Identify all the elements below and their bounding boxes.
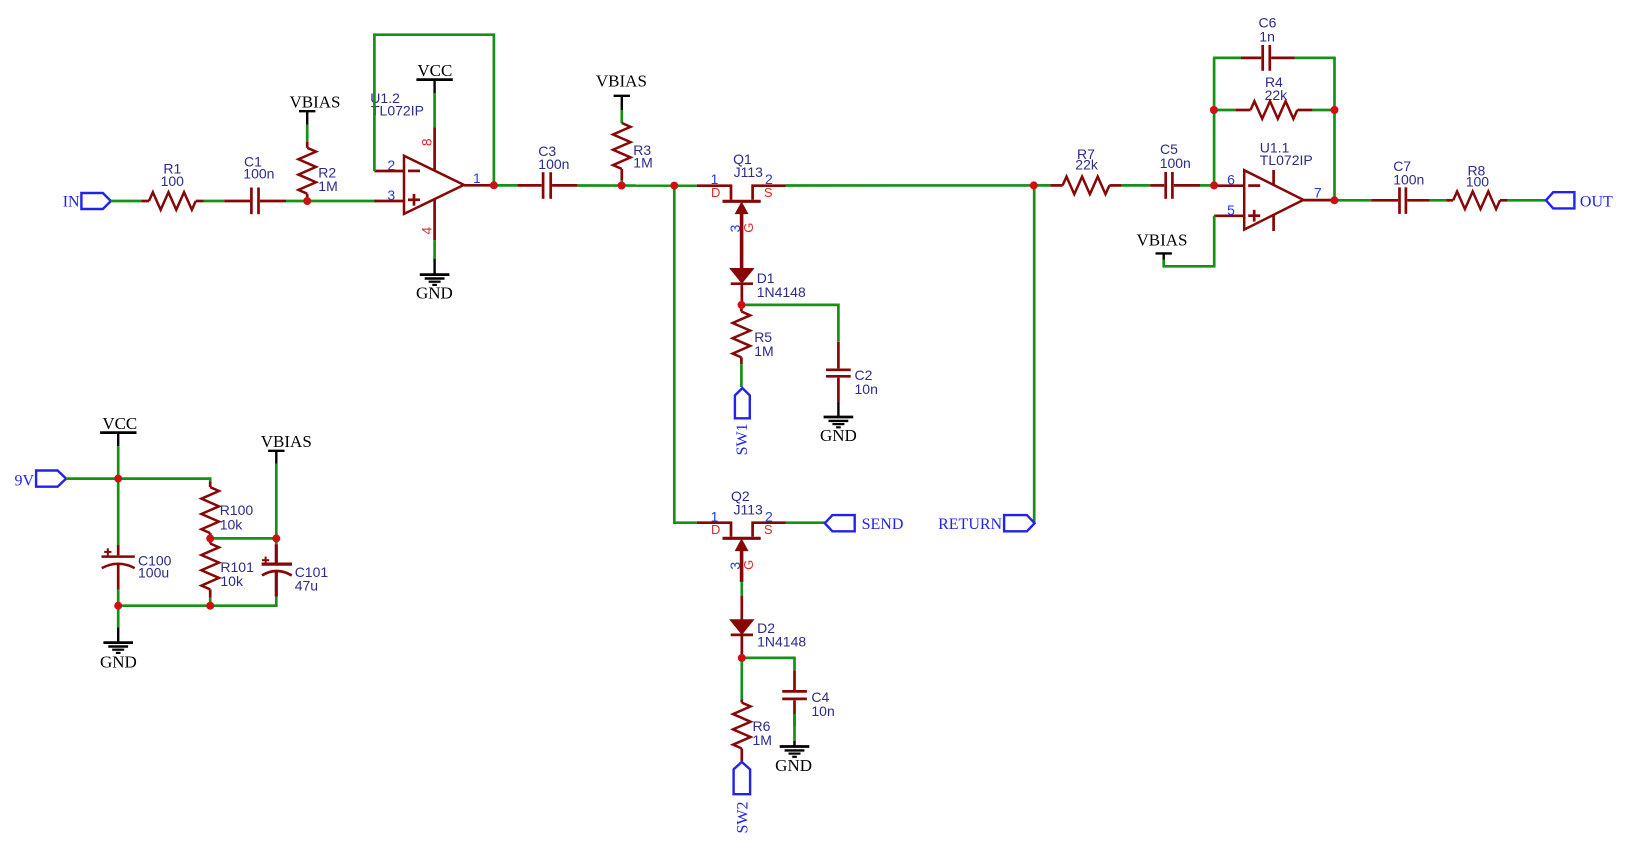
wire Q2 source to SEND bbox=[786, 521, 825, 524]
svg-text:1N4148: 1N4148 bbox=[757, 284, 806, 300]
svg-text:G: G bbox=[741, 560, 756, 570]
svg-text:IN: IN bbox=[63, 194, 80, 211]
wire U1.2 output to C3 bbox=[494, 184, 517, 187]
svg-text:D: D bbox=[711, 522, 720, 537]
port RETURN bbox=[938, 515, 1035, 533]
wire feedback right vertical bbox=[1333, 58, 1336, 200]
svg-text:TL072IP: TL072IP bbox=[371, 103, 424, 119]
svg-text:1M: 1M bbox=[753, 732, 772, 748]
resistor R7 22k bbox=[1050, 146, 1121, 194]
svg-text:GND: GND bbox=[775, 756, 812, 775]
wire C7 to R8 bbox=[1430, 199, 1446, 202]
wire D1 junction to C2 bbox=[742, 305, 839, 342]
svg-text:7: 7 bbox=[1314, 184, 1322, 200]
wire R100/R101 to VBIAS rail bbox=[210, 537, 276, 540]
svg-text:10k: 10k bbox=[220, 516, 244, 532]
resistor R101 10k bbox=[201, 538, 254, 597]
svg-text:100n: 100n bbox=[1393, 172, 1424, 188]
svg-text:1M: 1M bbox=[633, 155, 652, 171]
svg-text:GND: GND bbox=[100, 652, 137, 671]
capacitor C4 10n bbox=[782, 670, 835, 726]
svg-text:GND: GND bbox=[416, 284, 453, 303]
wire R101 to GND rail bbox=[209, 598, 212, 606]
wire VBIAS to R2 bbox=[306, 125, 309, 142]
wire C100 to GND rail bbox=[117, 590, 120, 606]
svg-text:100: 100 bbox=[1466, 174, 1490, 190]
svg-text:1M: 1M bbox=[754, 343, 773, 359]
wire D2 junction to R6 bbox=[740, 658, 743, 699]
wire C4 to GND bbox=[793, 714, 796, 741]
svg-text:J113: J113 bbox=[734, 501, 764, 517]
diode D1 1N4148 bbox=[731, 269, 806, 302]
capacitor C7 100n bbox=[1371, 158, 1430, 214]
wire R1 to C1 bbox=[204, 200, 225, 203]
port OUT bbox=[1546, 192, 1613, 210]
svg-text:8: 8 bbox=[418, 138, 434, 146]
transistor Q1 J113 bbox=[697, 151, 786, 269]
wire VBIAS down to divider bbox=[275, 464, 278, 539]
junction node D1/R5/C2 bbox=[738, 301, 746, 309]
capacitor C3 100n bbox=[517, 143, 577, 199]
svg-text:SW2: SW2 bbox=[735, 802, 752, 834]
ground under C4 bbox=[775, 741, 812, 775]
wire Q2 gate stub bbox=[740, 582, 743, 596]
junction node R101/GND rail bbox=[206, 602, 214, 610]
resistor R4 22k bbox=[1236, 74, 1313, 119]
wire C6 row left bbox=[1213, 57, 1241, 60]
svg-text:1: 1 bbox=[473, 170, 481, 186]
wire U1.2 pin 4 to GND bbox=[433, 240, 436, 258]
resistor R8 100 bbox=[1446, 163, 1507, 210]
junction node Q2 branch bbox=[670, 182, 678, 190]
junction node U1.1 pin6/feedback bbox=[1210, 181, 1218, 189]
capacitor C6 1n bbox=[1241, 14, 1295, 71]
svg-text:1n: 1n bbox=[1259, 28, 1275, 44]
wire R4 row right bbox=[1312, 109, 1334, 112]
svg-text:J113: J113 bbox=[734, 164, 764, 180]
port SEND bbox=[825, 515, 904, 533]
junction node 9V/VCC/C100 bbox=[114, 475, 122, 483]
wire VBIAS junction to C101 bbox=[275, 538, 278, 544]
svg-text:D: D bbox=[711, 185, 720, 200]
svg-text:10n: 10n bbox=[855, 381, 878, 397]
wire R3 to main line bbox=[620, 180, 623, 186]
op-amp U1.1 TL072IP bbox=[1214, 140, 1334, 231]
ground at supply bbox=[100, 627, 137, 671]
port SW2 bbox=[734, 762, 752, 834]
junction node D2/R6/C4 bbox=[738, 654, 746, 662]
svg-text:100n: 100n bbox=[538, 156, 569, 172]
resistor R2 1M bbox=[298, 142, 337, 197]
op-amp U1.2 TL072IP bbox=[370, 90, 494, 240]
capacitor C100 100u bbox=[102, 545, 172, 590]
svg-text:5: 5 bbox=[1227, 202, 1235, 218]
port SW1 bbox=[734, 388, 751, 455]
capacitor C101 47u bbox=[262, 544, 329, 596]
feedback wire U1.2 output to pin 2 bbox=[374, 35, 494, 186]
ground under U1.2 bbox=[416, 259, 453, 303]
svg-text:SEND: SEND bbox=[862, 516, 904, 533]
wire R8 to OUT bbox=[1507, 199, 1546, 202]
wire 9V to R100 bbox=[66, 479, 210, 482]
wire junction down to RETURN bbox=[1033, 185, 1036, 523]
resistor R6 1M bbox=[733, 699, 772, 761]
resistor R100 10k bbox=[201, 481, 253, 538]
svg-text:100n: 100n bbox=[1160, 155, 1191, 171]
wire R7 to C5 bbox=[1122, 184, 1151, 187]
svg-text:TL072IP: TL072IP bbox=[1260, 152, 1313, 168]
resistor R1 100 bbox=[141, 161, 203, 210]
svg-text:100n: 100n bbox=[243, 166, 274, 182]
svg-text:S: S bbox=[764, 522, 773, 537]
svg-text:3: 3 bbox=[387, 187, 395, 203]
wire VBIAS to U1.1 pin 5 bbox=[1164, 216, 1215, 266]
svg-text:9V: 9V bbox=[14, 472, 34, 489]
svg-text:OUT: OUT bbox=[1580, 193, 1613, 210]
wire R2 to junction bbox=[306, 197, 309, 202]
wire feedback left vertical bbox=[1213, 58, 1216, 185]
wire Q1 source to R7 bbox=[786, 184, 1051, 187]
port 9V bbox=[14, 471, 66, 490]
power VCC at U1.2 bbox=[416, 61, 452, 93]
capacitor C2 10n bbox=[826, 342, 878, 402]
svg-text:47u: 47u bbox=[295, 578, 318, 594]
svg-text:10n: 10n bbox=[811, 703, 834, 719]
wire GND rail to GND symbol bbox=[117, 606, 120, 628]
svg-text:10k: 10k bbox=[220, 573, 244, 589]
wire U1.1 output to C7 bbox=[1334, 199, 1371, 202]
svg-text:1N4148: 1N4148 bbox=[757, 634, 806, 650]
wire C5 to U1.1 pin 6 bbox=[1200, 184, 1214, 187]
wire C6 row right bbox=[1295, 57, 1336, 60]
svg-text:22k: 22k bbox=[1075, 156, 1099, 172]
junction node R7/RETURN bbox=[1030, 181, 1038, 189]
svg-text:G: G bbox=[741, 223, 756, 233]
svg-text:100u: 100u bbox=[138, 564, 169, 580]
junction node VBIAS/C101 bbox=[272, 534, 280, 542]
ground under C2 bbox=[820, 401, 857, 445]
junction node R3 bbox=[618, 182, 626, 190]
svg-text:1M: 1M bbox=[318, 178, 337, 194]
svg-text:22k: 22k bbox=[1265, 87, 1289, 103]
wire C1 to U1.2 pin 3 bbox=[286, 200, 376, 203]
wire R4 row left bbox=[1214, 109, 1236, 112]
wire IN to R1 bbox=[111, 200, 141, 203]
svg-text:S: S bbox=[764, 185, 773, 200]
svg-text:4: 4 bbox=[418, 227, 434, 235]
wire C3 to Q1 drain bbox=[577, 184, 696, 187]
svg-text:GND: GND bbox=[820, 426, 857, 445]
junction node C100/GND rail bbox=[114, 602, 122, 610]
svg-text:VBIAS: VBIAS bbox=[261, 432, 312, 451]
junction node C1/R2 bbox=[303, 197, 311, 205]
wire R5 to SW1 bbox=[740, 364, 743, 387]
power VBIAS at R3 bbox=[596, 71, 647, 110]
wire VBIAS to R3 bbox=[620, 110, 623, 123]
junction node R4 left bbox=[1210, 106, 1218, 114]
port IN bbox=[63, 193, 111, 211]
power VCC at supply bbox=[100, 414, 137, 446]
wire VCC to 9V rail bbox=[117, 446, 120, 478]
svg-text:6: 6 bbox=[1227, 172, 1235, 188]
resistor R5 1M bbox=[733, 305, 774, 364]
junction node U1.1 output bbox=[1330, 196, 1338, 204]
junction node R100/R101 bbox=[206, 534, 214, 542]
capacitor C1 100n bbox=[224, 154, 286, 215]
wire GND rail bbox=[118, 597, 276, 606]
svg-text:SW1: SW1 bbox=[734, 423, 751, 455]
svg-text:VCC: VCC bbox=[102, 414, 137, 433]
wire VCC to U1.2 pin 8 bbox=[433, 93, 436, 127]
resistor R3 1M bbox=[613, 123, 653, 180]
svg-text:RETURN: RETURN bbox=[938, 516, 1002, 533]
svg-text:VCC: VCC bbox=[417, 61, 452, 80]
wire junction down to Q2 drain bbox=[674, 186, 697, 523]
svg-text:2: 2 bbox=[387, 157, 395, 173]
wire D2 junction to C4 bbox=[742, 658, 795, 670]
power VBIAS at supply bbox=[261, 432, 312, 464]
svg-text:VBIAS: VBIAS bbox=[1136, 231, 1187, 250]
svg-text:VBIAS: VBIAS bbox=[289, 93, 340, 112]
power VBIAS at U1.1 bbox=[1136, 231, 1187, 260]
power VBIAS at R2 bbox=[289, 93, 340, 125]
svg-text:100: 100 bbox=[161, 173, 185, 189]
diode D2 1N4148 bbox=[731, 596, 807, 655]
capacitor C5 100n bbox=[1150, 141, 1200, 199]
junction node U1.2 output bbox=[490, 181, 498, 189]
wire VCC rail to C100 bbox=[117, 479, 120, 545]
svg-text:VBIAS: VBIAS bbox=[596, 71, 647, 90]
junction node R4 right bbox=[1331, 106, 1339, 114]
transistor Q2 J113 bbox=[697, 488, 786, 582]
